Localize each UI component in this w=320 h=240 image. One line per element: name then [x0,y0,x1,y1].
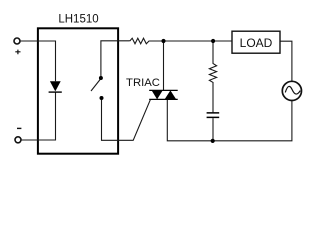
svg-text:LOAD: LOAD [240,36,273,50]
svg-text:LH1510: LH1510 [58,14,98,26]
svg-text:TRIAC: TRIAC [126,77,160,89]
